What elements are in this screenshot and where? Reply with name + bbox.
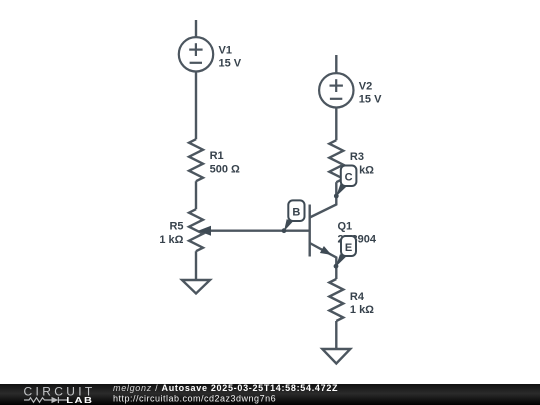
- svg-text:V2: V2: [359, 80, 372, 92]
- svg-text:B: B: [292, 207, 300, 219]
- potentiometer R5: [189, 209, 203, 251]
- ground (left): [182, 280, 210, 294]
- node flag C: [341, 166, 357, 187]
- node flag E: [341, 236, 356, 256]
- junction dot emitter: [334, 264, 339, 269]
- svg-text:R3: R3: [350, 151, 364, 163]
- wire V1 top: [195, 20, 197, 37]
- voltage source V2: [319, 73, 353, 107]
- svg-text:melgonz / Autosave 2025-03-25T: melgonz / Autosave 2025-03-25T14:58:54.4…: [113, 383, 338, 393]
- wire R5 to ground: [195, 251, 197, 280]
- wire V2 to R3: [335, 108, 337, 141]
- node flag C tail: [336, 184, 346, 197]
- resistor R4: [329, 279, 343, 321]
- logo resistor-diode line: [24, 397, 67, 403]
- wire R5 wiper to base: [208, 229, 310, 231]
- schematic text labels: [159, 44, 382, 316]
- svg-text:R4: R4: [350, 291, 365, 303]
- svg-text:E: E: [345, 242, 352, 254]
- svg-text:R5: R5: [169, 221, 183, 233]
- svg-text:1 kΩ: 1 kΩ: [159, 234, 183, 246]
- junction dot base: [282, 228, 287, 233]
- wire V2 top: [335, 55, 337, 73]
- resistor R1: [189, 139, 203, 181]
- wire R1 to R5: [195, 181, 197, 209]
- junction dot collector: [334, 194, 339, 199]
- svg-text:C: C: [345, 172, 353, 184]
- node flag B tail: [284, 219, 293, 231]
- wire R3 to collector node: [335, 182, 337, 196]
- node flag E tail: [336, 254, 346, 267]
- transistor Q1 emitter lead: [310, 243, 337, 266]
- svg-text:R1: R1: [210, 150, 224, 162]
- wire R4 to ground: [335, 321, 337, 349]
- svg-text:V1: V1: [219, 44, 232, 56]
- transistor Q1 emitter arrow: [320, 246, 332, 255]
- transistor Q1 base bar: [309, 205, 311, 257]
- wire emitter to R4: [335, 266, 337, 279]
- node flag B: [288, 200, 304, 221]
- svg-text:1 kΩ: 1 kΩ: [350, 304, 374, 316]
- svg-text:15 V: 15 V: [219, 58, 242, 70]
- CircuitLab logo wordmark: [24, 385, 96, 399]
- svg-text:Q1: Q1: [338, 220, 353, 232]
- ground (right): [322, 349, 350, 364]
- svg-text:15 V: 15 V: [359, 94, 382, 106]
- footer bar: [0, 384, 540, 405]
- voltage source V1: [179, 37, 213, 71]
- svg-text:LAB: LAB: [66, 396, 93, 405]
- svg-text:http://circuitlab.com/cd2az3dw: http://circuitlab.com/cd2az3dwng7n6: [113, 394, 276, 404]
- resistor R3: [329, 140, 343, 182]
- R5 wiper arrow: [198, 226, 211, 236]
- wire V1 to R1: [195, 72, 197, 140]
- transistor Q1 collector lead: [310, 196, 337, 218]
- svg-text:500 Ω: 500 Ω: [210, 164, 240, 176]
